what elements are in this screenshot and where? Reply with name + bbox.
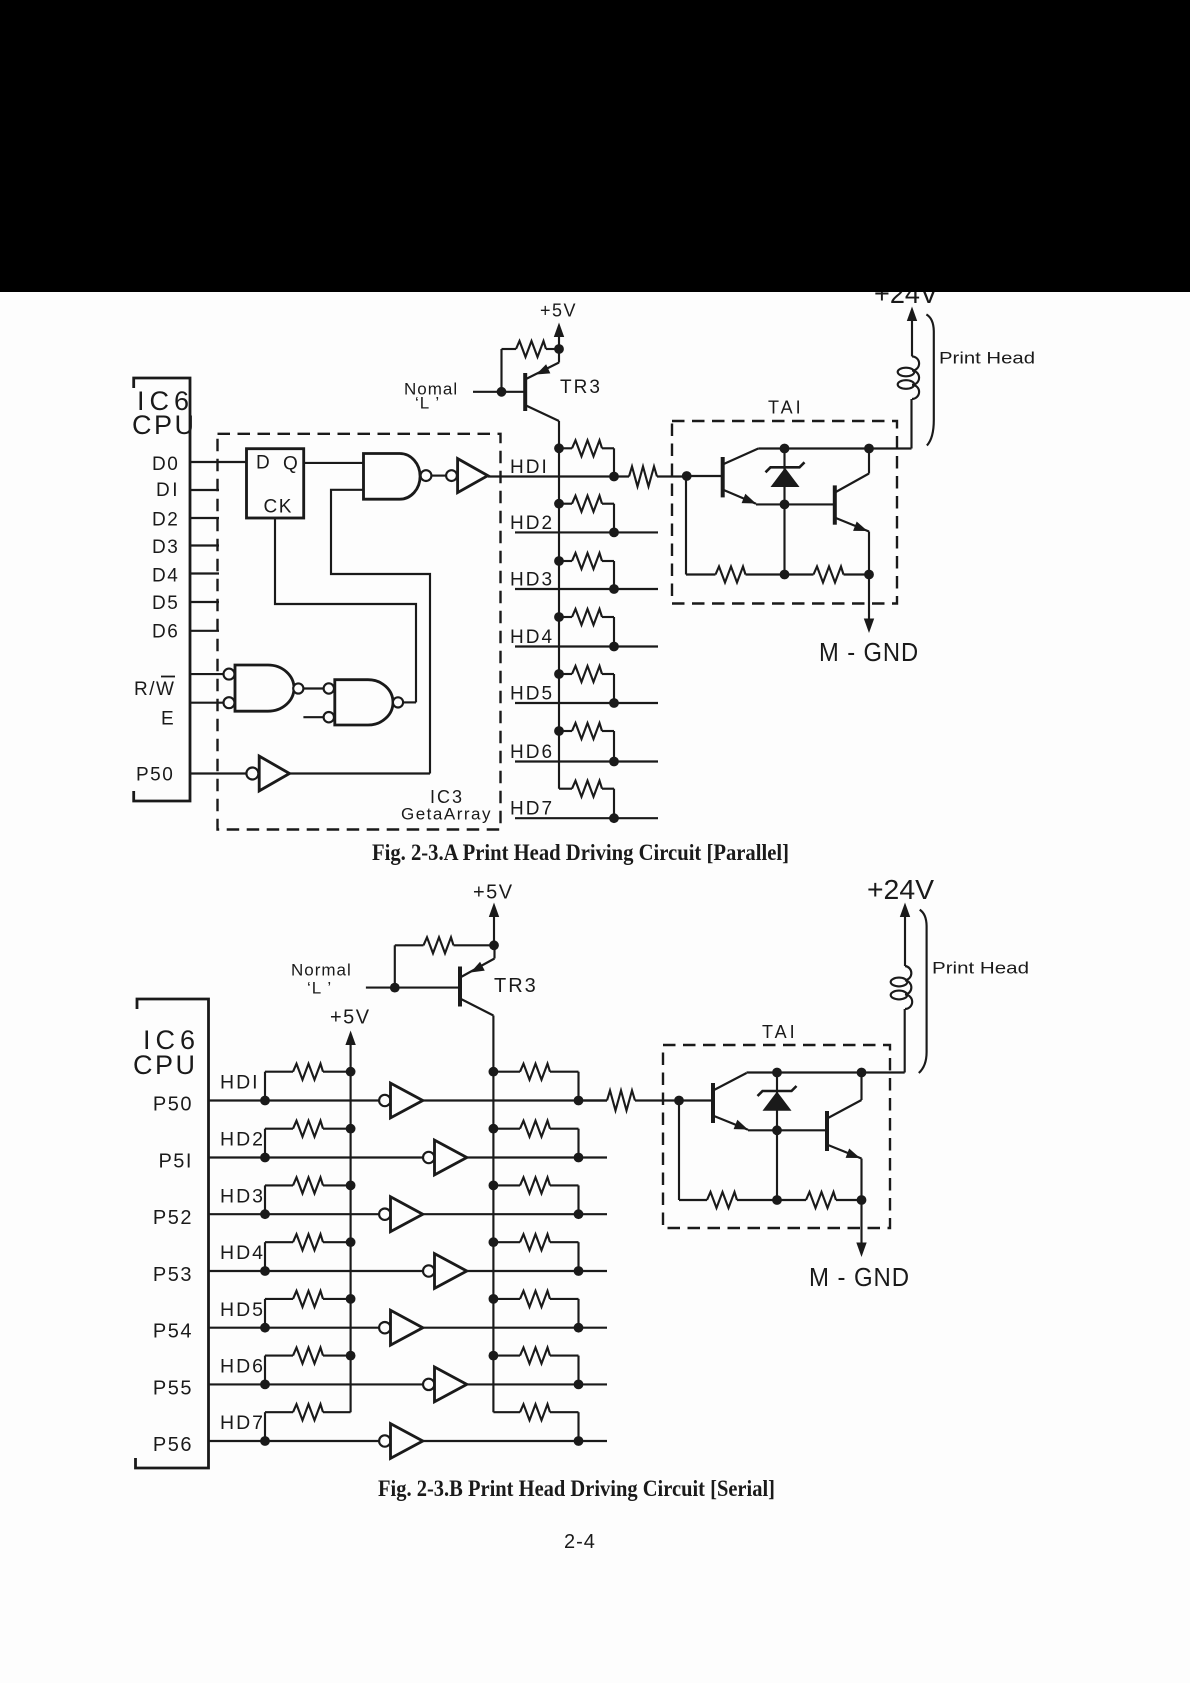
svg-text:+24V: +24V [867, 874, 934, 905]
node P56 pull-up tap [260, 1436, 270, 1446]
svg-text:‘L ’: ‘L ’ [415, 394, 440, 413]
NAND U2 lower input bubble [224, 697, 235, 708]
wire +5V rail vertical figure B [350, 1045, 352, 1412]
wire resistor HD6 drop figure B [577, 1356, 579, 1385]
node P50 pull-up tap [260, 1096, 270, 1106]
TA1 dashed boundary box figure A [672, 421, 897, 604]
svg-text:TAI: TAI [768, 398, 804, 418]
node HD5 junction figure A [609, 698, 619, 708]
svg-text:P50: P50 [136, 765, 174, 786]
wire TA1 top rail figure A [758, 447, 911, 449]
wire R/W stub to NAND U2 input [190, 673, 224, 675]
node P52 pull-up tap [260, 1209, 270, 1219]
transistor Q1 figure B base bar [711, 1083, 715, 1123]
wire inverter U2 output [467, 1156, 607, 1158]
svg-text:D4: D4 [152, 566, 179, 587]
transistor Q1 figure B collector diagonal [714, 1073, 747, 1090]
wire inverter U4 output [467, 1270, 607, 1272]
node emitter rail tap row 3 figure B [489, 1181, 499, 1191]
svg-text:+5V: +5V [473, 882, 514, 904]
wire NAND U3 lower input feedback from P50 inverter [331, 490, 430, 774]
inductor print head coil figure A [912, 356, 919, 399]
node P5I pull-up tap [260, 1153, 270, 1163]
inverter U1 figure B [379, 1095, 390, 1106]
node HD2 junction figure A [609, 528, 619, 538]
svg-text:‘L ’: ‘L ’ [307, 979, 332, 998]
inverter U5 figure B [379, 1322, 390, 1333]
svg-text:D5: D5 [152, 593, 179, 614]
resistor R1 bottom rail figure A [716, 567, 746, 583]
svg-text:D0: D0 [152, 454, 179, 475]
resistor pull-up HD3 figure A [559, 560, 572, 562]
wire resistor HD5 drop [613, 674, 615, 703]
svg-text:HD2: HD2 [510, 513, 554, 534]
svg-text:D3: D3 [152, 537, 179, 558]
svg-text:P53: P53 [153, 1264, 193, 1286]
node emitter rail zener tap figure A [780, 500, 790, 510]
wire HD2 line figure A [515, 531, 658, 533]
resistor pull-up HD6 figure B left bank [293, 1348, 323, 1364]
wire NAND U3 output to inverter U4 input bubble [431, 475, 446, 477]
svg-text:R/W: R/W [134, 679, 175, 700]
svg-text:M - GND: M - GND [809, 1262, 910, 1292]
wire D0 to flip-flop D input [190, 461, 247, 463]
svg-text:+5V: +5V [540, 301, 577, 321]
wire TA1 input down to bottom rail [685, 476, 687, 575]
svg-text:P55: P55 [153, 1377, 193, 1399]
resistor series to TA1 figure B [607, 1091, 635, 1111]
resistor pull-up HD3 figure B left bank [293, 1177, 323, 1193]
svg-text:P52: P52 [153, 1207, 193, 1229]
resistor HD5 figure B right bank [493, 1298, 520, 1300]
svg-text:DI: DI [156, 480, 180, 501]
svg-text:M - GND: M - GND [819, 637, 919, 667]
wire resistor HD2 drop figure B [577, 1129, 579, 1158]
resistor pull-up HD2 figure A [559, 503, 572, 505]
resistor pull-up HD7 figure B left bank [293, 1404, 323, 1420]
wire HD6 line figure A [515, 760, 658, 762]
wire NAND U5 output [403, 701, 416, 703]
print head bracket figure A [926, 314, 933, 445]
wire P55 to inverter U6 [379, 1383, 423, 1385]
wire NAND U2 output to NAND U5 input [303, 687, 323, 689]
transistor TR3 figure A base bar [523, 373, 527, 411]
NAND gate U5 [335, 680, 393, 725]
node +5V rail tap row 3 figure B [346, 1181, 356, 1191]
wire TA1 top rail figure B [747, 1071, 905, 1073]
wire inverter U7 output [423, 1440, 607, 1442]
wire Q output to NAND U3 upper input [304, 462, 364, 464]
svg-text:P5I: P5I [158, 1151, 193, 1173]
node rail tap row 3 figure A [554, 556, 564, 566]
wire D3 stub [190, 544, 219, 546]
svg-text:HD7: HD7 [510, 799, 554, 820]
wire Q1 emitter rail to Q2 base figure A [756, 503, 834, 505]
node TA1 input figure B [674, 1096, 684, 1106]
transistor TR3 figure B collector diagonal [461, 999, 493, 1016]
svg-text:HD5: HD5 [220, 1299, 265, 1321]
wire TA1 input down to bottom rail figure B [678, 1101, 680, 1201]
node TA1 input figure A [682, 471, 692, 481]
node HD1 junction figure B [574, 1096, 584, 1106]
resistor base pull-up TR3 figure A [502, 348, 517, 350]
node HD7 junction figure A [609, 813, 619, 823]
wire P50 to inverter [190, 772, 246, 774]
node bottom rail Q2 emitter figure A [864, 570, 874, 580]
wire E stub to NAND U2 input [190, 702, 224, 704]
wire D2 stub [190, 517, 219, 519]
wire zener branch vertical figure A [783, 449, 785, 575]
transistor Q2 figure B collector diagonal [828, 1100, 862, 1118]
node +5V rail tap row 6 figure B [346, 1351, 356, 1361]
wire resistor HD2 drop [613, 504, 615, 533]
node HD4 junction figure A [609, 642, 619, 652]
transistor TR3 figure A collector diagonal [526, 406, 559, 422]
wire HD5 line figure A [515, 702, 658, 704]
node bottom rail center figure A [780, 570, 790, 580]
node emitter rail tap row 6 figure B [489, 1351, 499, 1361]
NAND U5 output bubble [393, 697, 403, 707]
wire P5I line from CPU [209, 1156, 380, 1158]
resistor series HD1 to TA1 figure A [629, 467, 657, 487]
resistor HD2 figure B right bank [493, 1128, 520, 1130]
node top rail zener tap figure A [780, 444, 790, 454]
transistor Q1 figure B emitter diagonal with arrow [714, 1116, 748, 1130]
wire HD4 line figure A [515, 645, 658, 647]
NAND U5 upper input bubble [324, 683, 334, 693]
resistor R2 bottom rail figure B [806, 1192, 836, 1208]
svg-text:CPU: CPU [133, 1050, 198, 1080]
+24V arrow figure B [904, 913, 906, 967]
resistor R2 bottom rail figure A [814, 567, 844, 583]
svg-text:HDI: HDI [510, 457, 549, 478]
resistor pull-up HD2 figure B left bank [293, 1121, 323, 1137]
inverter U6 input bubble on P50 [246, 768, 258, 780]
node emitter rail tap row 4 figure B [489, 1237, 499, 1247]
+5V arrow TR3 figure B [493, 913, 495, 946]
node HD5 junction figure B [574, 1323, 584, 1333]
inverter U6 triangle [259, 756, 289, 791]
wire pull-up stub row 7 figure B [264, 1412, 266, 1441]
wire P54 line from CPU [209, 1327, 380, 1329]
node +5V / resistor junction [554, 344, 564, 354]
node emitter rail tap row 5 figure B [489, 1294, 499, 1304]
wire P53 to inverter U4 [379, 1270, 423, 1272]
svg-text:2-4: 2-4 [564, 1531, 596, 1553]
node +5V rail tap row 2 figure B [346, 1124, 356, 1134]
svg-text:TR3: TR3 [494, 975, 538, 997]
wire zener branch vertical figure B [776, 1073, 778, 1201]
wire TR3 collector rail down ladder figure A [558, 421, 560, 789]
inverter U4 triangle [458, 459, 488, 493]
wire D6 stub [190, 630, 219, 632]
wire resistor HD4 drop figure B [577, 1242, 579, 1271]
wire D1 stub [190, 489, 219, 491]
wire inverter U6 output to feedback node [290, 772, 431, 774]
NAND U2 upper input bubble [224, 669, 235, 680]
NAND U2 output bubble [293, 683, 303, 693]
wire TA1 input to Q1 base figure B [679, 1099, 713, 1101]
svg-text:D: D [256, 453, 270, 474]
+24V arrow figure A [911, 317, 913, 357]
svg-text:HD4: HD4 [510, 627, 554, 648]
svg-text:Print Head: Print Head [932, 959, 1029, 978]
wire inverter U6 output [467, 1383, 607, 1385]
wire NAND U5 lower input stub [303, 716, 323, 718]
svg-text:HD4: HD4 [220, 1242, 265, 1264]
wire resistor HD7 drop [613, 789, 615, 819]
transistor Q2 figure A emitter diagonal with arrow [836, 518, 869, 532]
svg-text:Normal: Normal [291, 961, 352, 980]
wire P53 line from CPU [209, 1270, 380, 1272]
svg-text:CPU: CPU [132, 410, 197, 440]
wire pull-up to base figure B [394, 945, 396, 987]
resistor pull-up HD4 figure A [559, 616, 572, 618]
resistor HD7 figure B right bank [493, 1411, 520, 1413]
svg-text:HD6: HD6 [220, 1356, 265, 1378]
node +5V resistor junction figure B [489, 940, 499, 950]
node rail tap row 6 figure A [554, 726, 564, 736]
figure A: IC6 CPU box [134, 378, 190, 801]
transistor TR3 figure B base bar [458, 967, 462, 1007]
wire Q1 emitter rail to Q2 base figure B [748, 1129, 827, 1131]
svg-text:P50: P50 [153, 1094, 193, 1116]
resistor pull-up HD6 figure A [559, 730, 572, 732]
black scan bar at top of page [0, 0, 1190, 292]
node rail tap row 1 figure A [554, 443, 564, 453]
svg-text:HDI: HDI [220, 1072, 260, 1094]
wire CK input from NAND U5 output [275, 518, 416, 702]
svg-text:D2: D2 [152, 510, 179, 531]
wire inverter U5 output [423, 1327, 607, 1329]
inductor print head coil figure B [905, 966, 912, 1009]
resistor base pull-up TR3 figure B [395, 944, 424, 946]
wire pull-up stub row 1 figure B [264, 1072, 266, 1101]
+5V rail arrow figure B [350, 1041, 352, 1046]
inverter U4 input bubble [446, 470, 457, 481]
node HD4 junction figure B [574, 1266, 584, 1276]
transistor TR3 figure A emitter diagonal to +5V [526, 363, 559, 380]
inverter U6 figure B [423, 1379, 434, 1390]
node P55 pull-up tap [260, 1380, 270, 1390]
NAND gate U2 [235, 665, 294, 711]
wire TA1 bottom rail figure B [679, 1199, 707, 1201]
node +5V rail tap row 5 figure B [346, 1294, 356, 1304]
NAND gate U3 [364, 454, 421, 500]
wire resistor HD3 drop [613, 561, 615, 589]
wire HD1 line inverter to series resistor [488, 475, 629, 477]
node P53 pull-up tap [260, 1266, 270, 1276]
node emitter rail tap row 1 figure B [489, 1067, 499, 1077]
node HD3 junction figure A [609, 584, 619, 594]
resistor HD3 figure B right bank [493, 1184, 520, 1186]
transistor Q1 figure A collector diagonal [724, 449, 759, 465]
wire resistor HD1 drop figure B [577, 1072, 579, 1101]
transistor Q1 figure A emitter diagonal with arrow [724, 490, 756, 504]
resistor HD6 figure B right bank [493, 1355, 520, 1357]
wire Normal L to TR3 base [366, 987, 459, 989]
svg-text:E: E [161, 709, 174, 730]
wire inverter U1 output [423, 1099, 607, 1101]
node HD3 junction figure B [574, 1209, 584, 1219]
resistor pull-up HD4 figure B left bank [293, 1234, 323, 1250]
wire resistor HD7 drop figure B [577, 1412, 579, 1441]
node HD6 junction figure B [574, 1380, 584, 1390]
wire TA1 input to Q1 base [687, 475, 722, 477]
svg-text:HD3: HD3 [510, 570, 554, 591]
+5V arrow figure A [558, 333, 560, 350]
wire P50 inverted line to series resistor [579, 1099, 608, 1101]
wire D5 stub [190, 601, 219, 603]
zener diode D1 figure A [766, 462, 805, 472]
svg-text:Print Head: Print Head [939, 349, 1035, 368]
wire pull-up stub row 3 figure B [264, 1185, 266, 1214]
wire coil to TA1 top rail figure A [910, 399, 912, 449]
wire P5I to inverter U2 [379, 1156, 423, 1158]
NAND U5 lower input bubble [324, 712, 334, 722]
transistor Q2 figure B emitter diagonal with arrow [828, 1145, 862, 1159]
node HD7 junction figure B [574, 1436, 584, 1446]
node base of TR3 figure A [497, 387, 507, 397]
wire resistor HD5 drop figure B [577, 1299, 579, 1328]
print head bracket figure B [919, 910, 927, 1073]
wire resistor HD3 drop figure B [577, 1185, 579, 1214]
wire pull-up stub row 4 figure B [264, 1242, 266, 1271]
svg-text:D6: D6 [152, 622, 179, 643]
inverter U3 figure B [379, 1209, 390, 1220]
resistor pull-up HD1 figure B left bank [293, 1064, 323, 1080]
node HD1 junction figure A [609, 472, 619, 482]
wire pull-up stub row 5 figure B [264, 1299, 266, 1328]
M-GND arrow figure A [868, 575, 870, 624]
svg-text:GetaArray: GetaArray [401, 805, 492, 824]
resistor HD4 figure B right bank [493, 1241, 520, 1243]
wire HD7 line figure A [515, 817, 658, 819]
transistor Q2 figure B base bar [825, 1111, 829, 1151]
wire P52 line from CPU [209, 1213, 380, 1215]
svg-text:TAI: TAI [762, 1022, 798, 1042]
node +5V rail tap row 4 figure B [346, 1237, 356, 1247]
wire pull-up stub row 6 figure B [264, 1356, 266, 1385]
svg-text:TR3: TR3 [560, 377, 602, 398]
M-GND arrow figure B [860, 1200, 862, 1247]
node emitter rail tap row 2 figure B [489, 1124, 499, 1134]
resistor pull-up HD5 figure A [559, 673, 572, 675]
svg-text:Fig. 2-3.A Print Head Driving: Fig. 2-3.A Print Head Driving Circuit [P… [372, 840, 789, 865]
wire P56 line from CPU [209, 1440, 380, 1442]
svg-text:+5V: +5V [330, 1007, 371, 1029]
wire TR3 emitter rail figure B [492, 1016, 494, 1413]
transistor Q2 figure A collector diagonal [836, 474, 869, 493]
TA1 dashed boundary box figure B [663, 1045, 890, 1228]
node rail tap row 4 figure A [554, 612, 564, 622]
node bottom rail Q2 emitter figure B [857, 1195, 867, 1205]
svg-text:HD6: HD6 [510, 742, 554, 763]
node rail tap row 2 figure A [554, 499, 564, 509]
wire resistor HD1 drop [613, 448, 615, 476]
wire pull-up stub row 2 figure B [264, 1129, 266, 1158]
wire HD3 line figure A [515, 588, 658, 590]
node bottom rail center figure B [772, 1195, 782, 1205]
svg-text:Q: Q [283, 454, 298, 475]
wire resistor HD4 drop [613, 617, 615, 647]
inverter U2 figure B [423, 1152, 434, 1163]
node top rail Q2 collector tap figure A [864, 444, 874, 454]
figure B: IC6 CPU box [136, 999, 209, 1468]
transistor TR3 figure B emitter diagonal to +5V [461, 959, 495, 978]
svg-text:P54: P54 [153, 1321, 193, 1343]
node HD6 junction figure A [609, 757, 619, 767]
svg-text:CK: CK [264, 496, 293, 517]
resistor HD1 figure B right bank [493, 1071, 520, 1073]
IC3 GateArray dashed boundary box [218, 434, 501, 830]
inverter U4 figure B [423, 1265, 434, 1276]
node emitter rail zener tap figure B [772, 1125, 782, 1135]
wire inverter U3 output [423, 1213, 607, 1215]
transistor Q1 figure A base bar [721, 457, 725, 497]
svg-text:HD2: HD2 [220, 1129, 265, 1151]
svg-text:HD3: HD3 [220, 1185, 265, 1207]
transistor Q2 figure A base bar [833, 485, 837, 524]
wire P55 line from CPU [209, 1383, 380, 1385]
node P54 pull-up tap [260, 1323, 270, 1333]
resistor pull-up HD7 figure A [559, 788, 572, 790]
svg-text:HD7: HD7 [220, 1412, 265, 1434]
wire P50 line from CPU [209, 1099, 380, 1101]
resistor pull-up HD1 figure A [559, 447, 572, 449]
wire coil to TA1 top rail figure B [904, 1009, 906, 1073]
wire D4 stub [190, 572, 219, 574]
D flip-flop U1 box [247, 449, 304, 518]
resistor pull-up HD5 figure B left bank [293, 1291, 323, 1307]
wire TA1 bottom rail figure A [686, 573, 716, 575]
wire pull-up to base [500, 349, 502, 392]
wire resistor HD6 drop [613, 731, 615, 762]
NAND U3 output bubble [421, 470, 432, 481]
node +5V rail tap row 1 figure B [346, 1067, 356, 1077]
wire Nomal L to TR3 base [473, 391, 524, 393]
node rail tap row 5 figure A [554, 669, 564, 679]
zener diode D1 figure B [758, 1086, 797, 1096]
node HD2 junction figure B [574, 1153, 584, 1163]
node base of TR3 figure B [390, 983, 400, 993]
node top rail zener tap figure B [772, 1068, 782, 1078]
svg-text:HD5: HD5 [510, 684, 554, 705]
svg-text:Fig. 2-3.B Print Head Driving: Fig. 2-3.B Print Head Driving Circuit [S… [378, 1476, 775, 1501]
node top rail Q2 collector tap figure B [857, 1068, 867, 1078]
svg-text:P56: P56 [153, 1434, 193, 1456]
inverter U7 figure B [379, 1435, 390, 1446]
resistor R1 bottom rail figure B [707, 1192, 737, 1208]
